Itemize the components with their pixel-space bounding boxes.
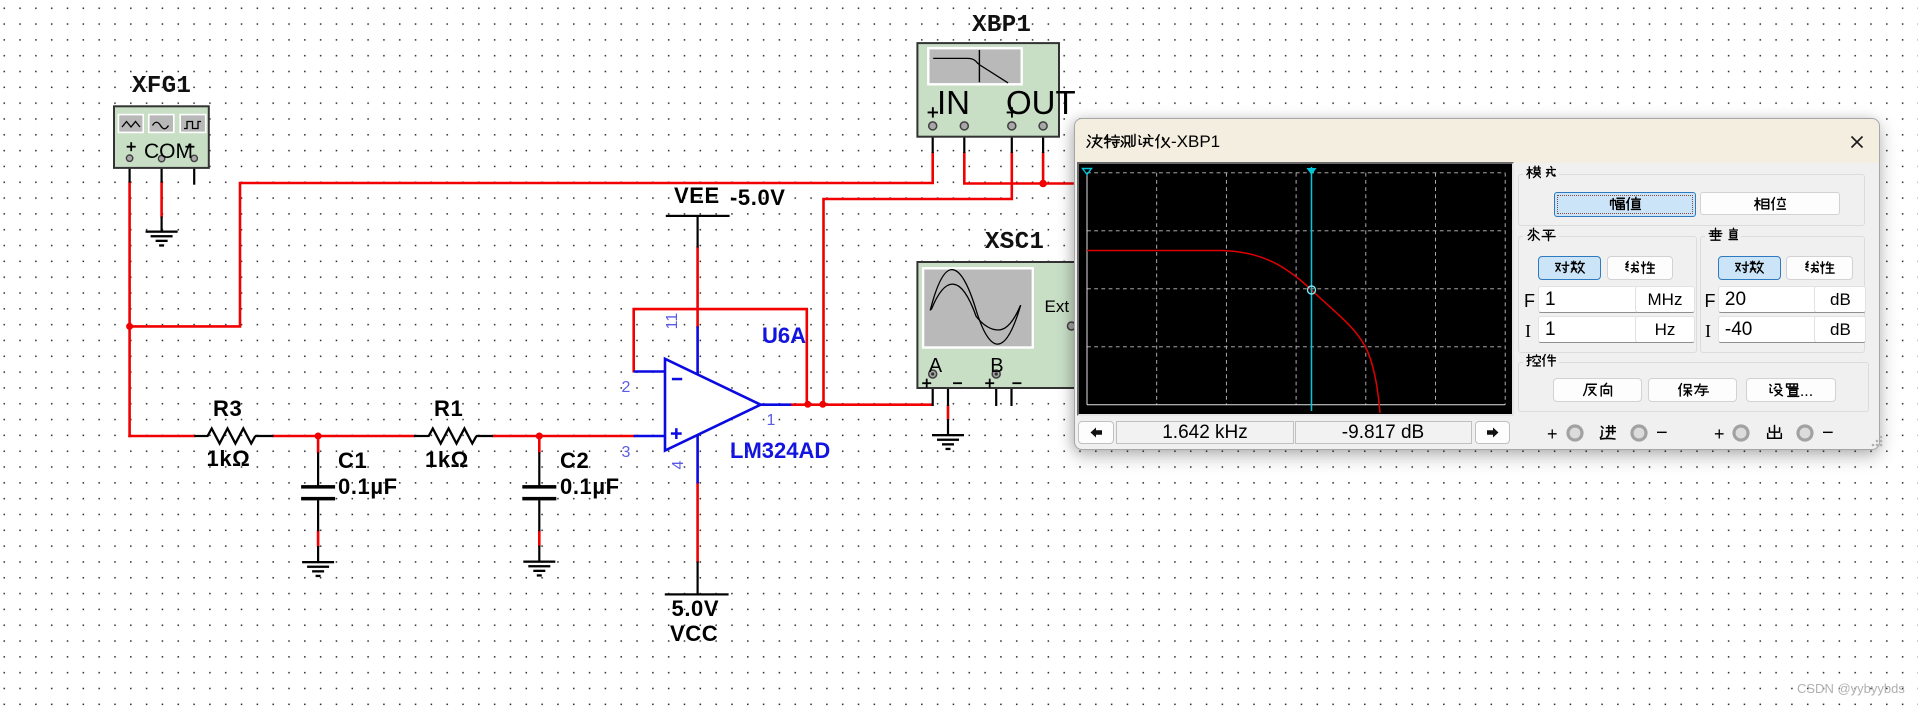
label VEE [674,185,720,207]
label R3 [213,398,242,420]
node C junction dot (C2 tap) [536,433,543,440]
XBP1 mini bode curve [933,50,1008,83]
pin number 4 (rotated) [671,456,687,474]
resistor R3 leads [194,435,273,437]
capacitor C1 leads [317,452,319,562]
label R3 value 1kOhm [207,448,251,470]
XSC1 pin stubs A+, A-, B+, B- [933,375,1012,436]
wire: node C down to C2 [538,436,541,453]
wire: XSC1 A- to ground [947,405,950,420]
ground (XSC1 A-) [932,434,964,450]
wire: op-amp output to XSC1 A+ [791,403,934,406]
junction dot output/feedback [804,401,811,408]
label Ext [1045,298,1070,315]
pin number 2 [622,380,631,396]
label R1 value 1kOhm [425,449,469,471]
label XSC1 [985,231,1044,255]
Bode plotter dialog window [1074,118,1880,450]
label 5.0V [672,598,720,620]
ground (C2) [523,561,555,577]
VCC supply stub [696,562,698,595]
ground (XFG1 COM) [146,231,178,247]
label -5.0V [730,187,786,209]
resistor R1 [429,429,477,444]
wire: output up to XBP1 OUT+ [824,152,1012,403]
label B [990,356,1003,376]
XBP1 mini screen [928,48,1021,84]
XFG1 plus mark [127,142,136,151]
VCC power T-bar [665,593,729,595]
XSC1 B- minus mark [1012,382,1021,384]
label R1 [434,398,463,420]
watermark [1797,682,1905,695]
XFG1 pin stubs [130,160,195,185]
label A [929,356,942,376]
wire: node A to XBP1 IN+ (up and across) [131,152,933,326]
XBP1 bode plotter box [917,43,1059,137]
capacitor C1 [301,485,335,500]
XSC1 screen [923,268,1033,347]
label XFG1 [132,75,191,99]
node B junction dot (C1 tap) [315,433,322,440]
label VCC [670,623,718,645]
wire: R1 to op-amp + input through node C [492,435,635,438]
capacitor C2 [522,485,556,500]
label IN [937,86,970,119]
XBP1 OUT+ plus mark [1007,107,1017,117]
wire: C2 bottom to ground [538,530,541,546]
op-amp pin 11 stub (blue) [696,326,699,374]
XFG1 minus mark [185,146,194,148]
label COM [144,141,193,162]
wire: VEE rail down to op-amp pin 11 [696,246,699,328]
label U6A [762,325,806,347]
XSC1 B+ plus mark [985,379,994,388]
XBP1 pin stubs [933,130,1043,153]
ground pin stub under COM [161,217,163,232]
op-amp output stub (blue) [761,403,792,406]
label C2 value 0.1uF [560,476,620,498]
label XBP1 [972,14,1031,38]
wire: C1 bottom to ground [317,530,320,547]
op-amp minus symbol [672,378,682,381]
op-amp pin 4 stub (blue) [696,435,699,483]
junction dot output/XBP1 OUT+ [819,401,826,408]
label C1 [338,450,367,472]
capacitor C2 leads [538,452,540,561]
node A junction dot [126,323,133,330]
op-amp input stubs (blue) [634,372,665,437]
XSC1 terminals A, B, Ext [929,322,1076,378]
pin number 11 (rotated) [665,312,681,330]
pin number 1 [767,413,776,429]
XSC1 A- minus mark [953,382,962,384]
XFG1 waveform buttons [118,115,205,133]
wire: feedback loop from inverting input up over to output [634,309,807,403]
XFG1 terminals [126,155,197,162]
pin number 3 [622,445,631,461]
label OUT [1006,86,1076,119]
wire: XBP1 IN- across to OUT- and beyond [964,152,1074,184]
XSC1 A+ plus mark [922,379,931,388]
wire: node A to R3 left [128,435,195,438]
XBP1 terminals [929,122,1047,130]
wire: XBP1 OUT- down [1042,152,1045,185]
junction dot OUT- net [1039,180,1047,188]
op-amp plus symbol [671,428,682,439]
ground (C1) [302,561,334,577]
VEE supply stub [696,216,698,248]
wire: XFG1 + terminal down to node A [128,182,131,438]
resistor R1 leads [414,435,493,437]
VEE power T-bar [666,215,730,217]
XBP1 IN+ plus mark [928,107,938,117]
XSC1 sine waves [930,270,1021,344]
op-amp U6A triangle [665,359,761,451]
XFG1 function generator box [114,106,209,168]
label LM324AD [730,440,830,462]
wire: XFG1 COM to ground [160,182,163,218]
label C2 [560,450,589,472]
label C1 value 0.1uF [338,476,398,498]
wire: VCC rail up to op-amp pin 4 [696,482,699,563]
XSC1 oscilloscope box [917,262,1078,388]
resistor R3 [208,429,256,444]
wire: node B down to C1 [317,436,320,453]
wire: R3 to R1 through node B [272,435,415,438]
